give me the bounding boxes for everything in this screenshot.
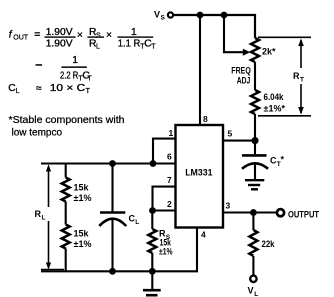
RL arrow up — [46, 164, 51, 171]
svg-text:1.90V: 1.90V — [46, 39, 73, 50]
svg-text:5: 5 — [228, 129, 233, 139]
svg-text:≈: ≈ — [36, 84, 42, 95]
wire pot to 6.04k — [254, 62, 256, 90]
svg-text:×: × — [77, 30, 83, 41]
op-amp U1 LM331 box — [176, 125, 224, 228]
wire RL/CL top rail to pin 6 — [41, 162, 176, 164]
junction node on VS rail at pin8 — [197, 12, 204, 19]
svg-text:*Stable components with: *Stable components with — [9, 115, 125, 126]
wire wiper branch — [224, 15, 244, 52]
junction node pin5/CT/RT — [251, 137, 258, 144]
svg-text:V: V — [248, 286, 254, 296]
wire pin 1 bracket — [153, 139, 176, 164]
wire pin 8 from VS rail — [199, 15, 201, 125]
svg-text:2.2 R: 2.2 R — [60, 70, 78, 81]
svg-text:T: T — [300, 77, 304, 84]
junction node CL top — [109, 160, 116, 167]
wire RS bottom lead — [151, 253, 153, 271]
svg-text:R: R — [293, 71, 300, 81]
formula line 2: ~ 1/(2.2 RTCT) — [36, 55, 93, 83]
wire CL bottom lead — [111, 220, 113, 272]
svg-text:22k: 22k — [262, 239, 276, 249]
svg-text:OUTPUT: OUTPUT — [288, 210, 319, 220]
svg-text:±1%: ±1% — [74, 239, 92, 249]
svg-text:15k: 15k — [74, 183, 90, 193]
svg-text:7: 7 — [167, 175, 172, 185]
svg-text:1.1 R: 1.1 R — [118, 39, 141, 50]
ground stem main — [151, 271, 153, 289]
capacitor CT plates — [242, 154, 267, 157]
svg-text:±1%: ±1% — [74, 193, 92, 203]
svg-text:ADJ: ADJ — [237, 76, 251, 86]
svg-text:OUT: OUT — [13, 35, 28, 42]
svg-text:low tempco: low tempco — [12, 128, 63, 139]
ground symbol CT — [245, 180, 264, 189]
svg-text:10 × C: 10 × C — [50, 83, 86, 94]
RT arrow down — [298, 107, 304, 115]
junction node on VS rail at wiper — [221, 12, 228, 19]
wire CT bottom lead — [254, 165, 256, 181]
svg-text:=: = — [34, 30, 40, 41]
ground symbol main — [143, 290, 161, 295]
wire 6.04k to pin5 node — [254, 114, 256, 141]
svg-text:15k: 15k — [74, 229, 90, 239]
junction node RS bottom / ground — [149, 268, 156, 275]
svg-text:8: 8 — [203, 114, 208, 124]
svg-text:R: R — [35, 209, 42, 219]
terminal VL — [250, 276, 256, 282]
wire RS top lead — [151, 211, 153, 230]
wire 22k top lead — [252, 213, 254, 231]
wire pin 2 stub — [153, 209, 176, 211]
resistor 22k zigzag — [249, 230, 257, 256]
RL dimension ticks — [41, 164, 64, 270]
wire RL column middle — [65, 202, 67, 225]
svg-text:L: L — [96, 44, 100, 51]
wire VS top rail — [174, 15, 255, 38]
terminal VS — [168, 12, 173, 17]
capacitor CL plates — [100, 211, 125, 214]
junction node CL bottom — [109, 268, 116, 275]
wiper arrowhead into pot — [243, 49, 251, 56]
junction node pin3/22k — [250, 209, 257, 216]
svg-text:L: L — [42, 215, 46, 222]
wire pin 5 — [223, 140, 255, 142]
svg-text:±1%: ±1% — [159, 247, 173, 257]
resistor RL lower 15k zigzag — [62, 225, 70, 249]
wire CL top lead — [111, 164, 113, 212]
wire RL column bottom lead — [65, 249, 67, 272]
formula line 1: fOUT = 1.90V/1.90V x RS/RL x 1/(1.1 RTCT) — [9, 27, 157, 50]
svg-text:×: × — [106, 30, 112, 41]
svg-text:L: L — [16, 88, 20, 95]
junction node pins 2-7 / RS — [149, 207, 156, 214]
svg-text:L: L — [254, 291, 258, 297]
svg-text:*: * — [281, 155, 285, 165]
wire bottom rail — [41, 228, 197, 271]
svg-text:S: S — [96, 32, 101, 39]
svg-text:2k*: 2k* — [262, 47, 276, 57]
wire CT top lead — [254, 141, 256, 155]
svg-text:T: T — [87, 75, 92, 82]
wire pin 3 to OUTPUT — [223, 211, 277, 213]
potentiometer 2k R zigzag — [251, 38, 259, 62]
svg-text:T: T — [86, 88, 91, 95]
svg-text:S: S — [161, 15, 166, 22]
svg-text:3: 3 — [226, 201, 231, 211]
svg-text:V: V — [154, 10, 160, 20]
svg-text:1: 1 — [72, 55, 78, 66]
formula line 3: CL ~ 10 x CT — [8, 83, 90, 95]
svg-text:T: T — [151, 44, 156, 51]
svg-text:±1%*: ±1%* — [264, 103, 286, 113]
resistor RL upper 15k zigzag — [62, 178, 70, 202]
terminal OUTPUT — [277, 209, 284, 216]
svg-text:L: L — [135, 219, 139, 226]
svg-text:1: 1 — [169, 128, 174, 138]
RT arrow up — [298, 39, 304, 47]
wire pin 7 bracket — [153, 187, 176, 211]
wire RL column top lead — [65, 164, 67, 178]
wire 22k to VL terminal — [252, 256, 254, 275]
RT dimension ticks — [258, 37, 311, 116]
svg-text:FREQ: FREQ — [231, 66, 251, 76]
svg-text:2: 2 — [167, 199, 172, 209]
RL arrow down — [46, 263, 51, 270]
svg-text:4: 4 — [201, 230, 206, 240]
svg-text:LM331: LM331 — [185, 168, 212, 178]
svg-text:6.04k: 6.04k — [264, 92, 285, 102]
resistor RS 15k zigzag — [148, 229, 156, 253]
svg-text:6: 6 — [167, 152, 172, 162]
junction node pins 1-6 — [150, 160, 157, 167]
resistor 6.04k zigzag — [251, 90, 259, 114]
